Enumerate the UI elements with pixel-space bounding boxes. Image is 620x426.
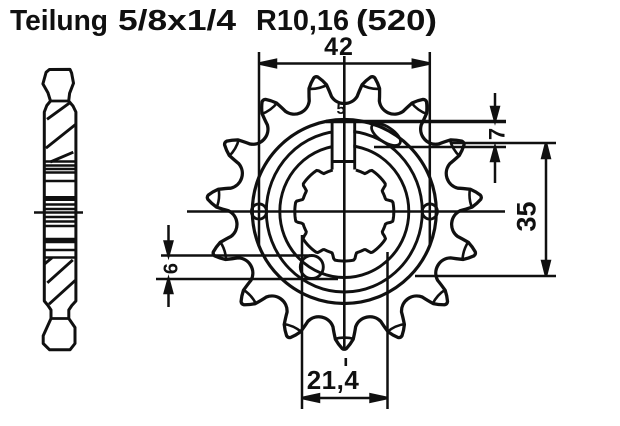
dimension 21,4 extension lines [302, 235, 388, 409]
horizontal centerline [187, 210, 505, 213]
circle r92 recess [252, 120, 436, 304]
bolt hole left [251, 204, 266, 219]
svg-text:7: 7 [484, 128, 509, 140]
dimension 42 line and arrows [259, 60, 430, 67]
sprocket tooth outline [207, 77, 481, 350]
side view tooth root lines [51, 101, 69, 319]
side view outline [43, 69, 76, 349]
keyway slot whiteout [333, 123, 353, 160]
bolt hole right [422, 204, 437, 219]
svg-text:5: 5 [337, 101, 346, 118]
side view horizontal section lines [44, 162, 76, 258]
svg-text:(520): (520) [356, 5, 437, 37]
dimension 7 arrows [491, 93, 499, 183]
spline bore [295, 170, 394, 261]
small hole 6mm [300, 256, 323, 279]
side view hatch top [46, 102, 76, 162]
dimension 6 tangent lines [161, 254, 310, 257]
oval slot top right [368, 119, 404, 150]
dimension 35 line and arrows [542, 143, 550, 276]
svg-text:35: 35 [512, 201, 542, 231]
svg-text:6: 6 [161, 263, 183, 274]
side view hatch bottom [45, 258, 76, 304]
circle r66 hub [280, 146, 409, 278]
vertical centerline [343, 56, 346, 350]
svg-text:21,4: 21,4 [307, 365, 360, 395]
side view centerline tick [34, 211, 83, 214]
dimension 42 extension lines [259, 52, 430, 245]
svg-text:42: 42 [324, 33, 354, 61]
dimension 6 arrows [165, 225, 173, 307]
circle r80 boss [266, 131, 422, 292]
dimension 35 extension bottom [415, 275, 556, 278]
svg-text:Teilung: Teilung [10, 5, 108, 37]
leader line r66 tangent (7 lower) [374, 146, 506, 149]
dimension 35 extension top [450, 142, 556, 145]
dimension 21,4 line and arrows [302, 394, 388, 401]
svg-text:5/8x1/4: 5/8x1/4 [118, 5, 236, 37]
tooth chamfer lines [216, 85, 472, 340]
keyway slot [332, 121, 355, 170]
leader line r92 tangent (7 upper) [326, 120, 506, 124]
